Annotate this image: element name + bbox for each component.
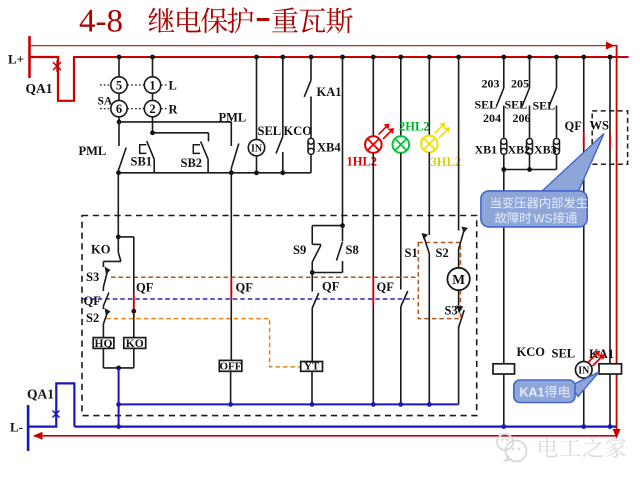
label SEL#1 xyxy=(475,98,498,112)
contact QF left xyxy=(84,293,109,309)
svg-text:S2: S2 xyxy=(86,311,99,325)
HQ/KO bottom join xyxy=(103,348,133,370)
S9/S8 bottom tie xyxy=(310,262,343,275)
SA dotted linkage row1 xyxy=(100,84,167,86)
svg-text:KA1: KA1 xyxy=(520,386,545,400)
contact QF col400 xyxy=(401,291,408,307)
wire 1HL2 lower xyxy=(372,153,374,276)
svg-text:QF: QF xyxy=(377,280,395,294)
wire S2-M xyxy=(458,249,460,268)
wire circle1 drop xyxy=(152,57,154,77)
contact PML (left) xyxy=(79,122,127,170)
wire S1 lower xyxy=(428,254,430,405)
contact SEL #3 col556.5 xyxy=(549,57,557,137)
svg-text:WS: WS xyxy=(590,119,610,133)
wire col133 to KO box xyxy=(133,311,135,337)
wire QF to YT xyxy=(311,308,313,362)
svg-text:IN: IN xyxy=(578,366,590,377)
QA1 blown-fuse marker xyxy=(53,61,61,72)
wire WS col lower xyxy=(609,149,611,364)
watermark logo + 电工之家 xyxy=(497,434,626,462)
label SEL bottom xyxy=(552,347,576,361)
svg-text:SEL: SEL xyxy=(475,98,498,112)
contact S8 xyxy=(337,226,359,264)
box WS dashed xyxy=(592,111,627,164)
label 205 xyxy=(511,77,529,91)
wire circle5 drop xyxy=(118,57,120,77)
motor M xyxy=(447,268,469,290)
svg-text:SEL: SEL xyxy=(533,99,556,113)
label 3HL2 xyxy=(431,155,462,169)
lamp 1HL2 xyxy=(365,136,382,153)
svg-text:1HL2: 1HL2 xyxy=(347,155,378,169)
contact S3 right xyxy=(445,304,465,328)
coil HQ xyxy=(93,338,114,350)
link XB1 xyxy=(501,137,507,155)
wire XB4 bottom xyxy=(310,156,312,173)
svg-text:S8: S8 xyxy=(346,243,359,257)
svg-text:L: L xyxy=(169,79,177,93)
svg-text:YT: YT xyxy=(304,361,320,373)
svg-text:203: 203 xyxy=(482,77,500,91)
link XB4 xyxy=(308,137,341,156)
wire SEL-IN bottom xyxy=(256,156,258,173)
svg-text:KA1: KA1 xyxy=(317,85,342,99)
label SEL#3 xyxy=(533,99,556,113)
wire col118 into box xyxy=(116,173,121,240)
wire xyxy=(102,306,104,309)
wire node132 to SB2 xyxy=(153,133,209,142)
linkage orange dashed path xyxy=(106,319,300,367)
label KCO xyxy=(284,124,313,138)
pushbutton SB1 xyxy=(131,141,155,173)
wire YT bottom xyxy=(311,371,313,404)
node line y169.5 xyxy=(501,156,556,172)
label QF col133 xyxy=(136,281,154,295)
label QF col231 xyxy=(236,281,254,295)
wire KO elbow xyxy=(103,261,121,267)
bus junction dots xyxy=(117,55,613,60)
wire col373 lower xyxy=(372,305,374,404)
label QF col373 xyxy=(377,280,395,294)
svg-text:S1: S1 xyxy=(405,246,418,260)
svg-text:QF: QF xyxy=(322,280,340,294)
lamp 3HL2 xyxy=(421,136,438,153)
contact S9 xyxy=(293,243,321,262)
label WS xyxy=(590,119,610,133)
label SEL xyxy=(258,124,282,138)
wire KCO-coil feeder xyxy=(503,170,505,364)
svg-text:KO: KO xyxy=(126,338,144,350)
wire red right rail down xyxy=(613,45,621,439)
svg-text:QF: QF xyxy=(565,119,583,133)
svg-text:SA: SA xyxy=(98,96,113,108)
svg-text:6: 6 xyxy=(116,102,122,116)
breaker QA1 (bottom pole) xyxy=(27,383,74,426)
wire blue drop to L- xyxy=(116,368,121,429)
svg-text:WS: WS xyxy=(534,212,553,226)
node line y173 xyxy=(116,170,311,175)
wire xyxy=(102,287,104,291)
link XB2 xyxy=(527,137,533,155)
wire col231 red segment xyxy=(230,278,232,301)
L- terminal bar xyxy=(10,405,28,451)
svg-text:SEL: SEL xyxy=(552,347,576,361)
wire circle6 to node xyxy=(117,117,122,125)
linkage brown dashed box xyxy=(418,243,460,319)
wire SEL-IN drop xyxy=(256,57,258,139)
wire SEL-IN bottom leads xyxy=(583,362,585,427)
svg-text:OFF: OFF xyxy=(220,361,242,373)
svg-text:2HL2: 2HL2 xyxy=(399,120,430,134)
label 206 xyxy=(513,111,531,125)
wire col373 red segment xyxy=(372,276,374,305)
svg-text:QF: QF xyxy=(136,281,154,295)
svg-text:HQ: HQ xyxy=(95,338,113,350)
pushbutton SB2 xyxy=(181,142,209,173)
svg-text:R: R xyxy=(169,102,179,116)
wire KCO bottom xyxy=(503,374,505,427)
coil YT xyxy=(301,361,323,373)
wire red top thin L+ rail xyxy=(31,42,617,50)
linkage brown dashed #1 xyxy=(111,276,418,278)
wire xyxy=(311,273,313,292)
wire 5-6 xyxy=(118,93,120,100)
dashed enclosure xyxy=(82,216,477,416)
label QF right xyxy=(565,119,583,133)
svg-text:S9: S9 xyxy=(293,243,306,257)
svg-text:KCO: KCO xyxy=(284,124,313,138)
svg-text:M: M xyxy=(452,272,465,287)
svg-text:L+: L+ xyxy=(8,52,24,67)
wire branch to col133 xyxy=(118,237,134,293)
svg-text:IN: IN xyxy=(251,143,263,154)
svg-text:XB3: XB3 xyxy=(534,143,557,157)
label XB3 xyxy=(534,143,557,157)
svg-text:2: 2 xyxy=(149,102,155,116)
label L xyxy=(169,79,177,93)
linkage blue dashed xyxy=(83,298,414,300)
3HL2 flash arrows xyxy=(435,123,451,139)
wire S3 lower xyxy=(458,326,460,404)
contact S2 right xyxy=(436,57,469,260)
coil KCO xyxy=(493,345,545,374)
wire node121 to PML-right xyxy=(119,122,231,146)
wire col133 red segment xyxy=(131,293,136,314)
contact S1 xyxy=(405,233,430,260)
svg-text:PML: PML xyxy=(79,144,107,158)
wire to HQ xyxy=(102,324,104,338)
link XB3 xyxy=(554,137,560,155)
callout: transformer fault note xyxy=(481,134,604,227)
contact QF col312 xyxy=(312,280,339,309)
label R xyxy=(169,102,179,116)
contact SEL #2 col529.5 xyxy=(522,57,530,137)
indicator SEL IN bottom xyxy=(575,362,592,379)
svg-text:S2: S2 xyxy=(436,246,449,260)
wire 342 drop xyxy=(342,57,344,226)
svg-text:QA1: QA1 xyxy=(26,81,53,96)
svg-text:PML: PML xyxy=(219,111,247,125)
label 204 xyxy=(483,111,501,125)
wire 1HL2 drop xyxy=(372,57,374,136)
svg-text:XB1: XB1 xyxy=(475,143,498,157)
svg-text:KCO: KCO xyxy=(517,345,546,359)
breaker QA1 (top pole) xyxy=(26,56,75,101)
wire PML-left bottom xyxy=(118,169,120,173)
label XB1 xyxy=(475,143,498,157)
SA dotted linkage row2 xyxy=(100,108,167,110)
selector SA contact 1 xyxy=(144,77,160,93)
bus L+ (red) xyxy=(73,56,629,58)
coil KA1 xyxy=(599,364,622,374)
wire 2HL2 drop xyxy=(400,57,402,136)
label KA1 bottom xyxy=(588,347,614,366)
svg-text:QF: QF xyxy=(84,294,102,308)
L+ terminal bar xyxy=(8,36,30,78)
QA1 bottom marker xyxy=(53,409,60,419)
svg-text:S3: S3 xyxy=(86,270,99,284)
wire 1-2 xyxy=(152,93,154,100)
contact KA1 xyxy=(304,57,341,137)
indicator SEL IN xyxy=(248,139,264,155)
wire col231 into box xyxy=(230,173,232,278)
wire 2HL2 lower xyxy=(400,153,402,290)
contact S2 left xyxy=(86,308,111,325)
svg-text:KO: KO xyxy=(91,243,111,257)
label 2HL2 xyxy=(399,120,430,134)
1HL2 flash arrows xyxy=(379,124,395,140)
svg-text:205: 205 xyxy=(511,77,529,91)
svg-text:SEL: SEL xyxy=(505,98,528,112)
svg-text:SEL: SEL xyxy=(258,124,282,138)
svg-text:QA1: QA1 xyxy=(27,387,54,402)
svg-text:QF: QF xyxy=(236,281,254,295)
label SA xyxy=(98,96,113,108)
wire 3HL2 lower xyxy=(428,152,430,235)
inner blue node line xyxy=(119,402,459,407)
title 4-8 继电保护-重瓦斯 xyxy=(79,4,353,40)
lamp 2HL2 xyxy=(393,136,410,153)
svg-text:XB2: XB2 xyxy=(508,143,531,157)
bus L- (blue) xyxy=(74,424,616,429)
S9/S8 top tie xyxy=(312,223,345,244)
callout: KA1 energized xyxy=(514,372,599,403)
selector SA contact 6 xyxy=(111,100,127,116)
svg-text:L-: L- xyxy=(10,420,23,435)
contact PML (right) xyxy=(219,111,247,173)
wire QF col lower xyxy=(583,149,585,362)
wire circle2 to node xyxy=(150,117,155,135)
wire col400 lower xyxy=(400,307,402,405)
wire OFF bottom xyxy=(230,371,232,404)
svg-text:XB4: XB4 xyxy=(317,141,341,155)
svg-text:S3: S3 xyxy=(445,304,458,318)
selector SA contact 2 xyxy=(144,100,160,116)
wire red bottom return xyxy=(33,432,617,440)
wire M-S3 xyxy=(458,290,460,305)
svg-text:206: 206 xyxy=(513,111,531,125)
selector SA contact 5 xyxy=(111,77,127,93)
wire KA1 bottom xyxy=(609,374,611,427)
svg-text:204: 204 xyxy=(483,111,501,125)
coil OFF xyxy=(219,360,242,372)
wire col231 to OFF xyxy=(230,300,232,360)
coil KO xyxy=(124,338,146,350)
contact KCO xyxy=(276,57,283,173)
contact QF closed (red) xyxy=(583,132,585,148)
svg-text:SB1: SB1 xyxy=(131,155,153,169)
svg-text:5: 5 xyxy=(116,78,122,92)
label SEL#2 xyxy=(505,98,528,112)
wire 3HL2 drop xyxy=(428,57,430,136)
svg-text:4-8: 4-8 xyxy=(79,4,123,40)
contact KO xyxy=(91,237,121,262)
label XB2 xyxy=(508,143,531,157)
contact SEL #1 col503.8 xyxy=(496,57,504,137)
contact WS closed (red) xyxy=(609,133,611,149)
label 203 xyxy=(482,77,500,91)
contact S3 left xyxy=(86,267,111,288)
wire WS col upper xyxy=(609,57,611,133)
label 1HL2 xyxy=(347,155,378,169)
svg-text:3HL2: 3HL2 xyxy=(431,155,462,169)
wire QF col upper xyxy=(583,57,585,132)
svg-text:1: 1 xyxy=(149,78,155,92)
svg-text:SB2: SB2 xyxy=(181,156,203,170)
